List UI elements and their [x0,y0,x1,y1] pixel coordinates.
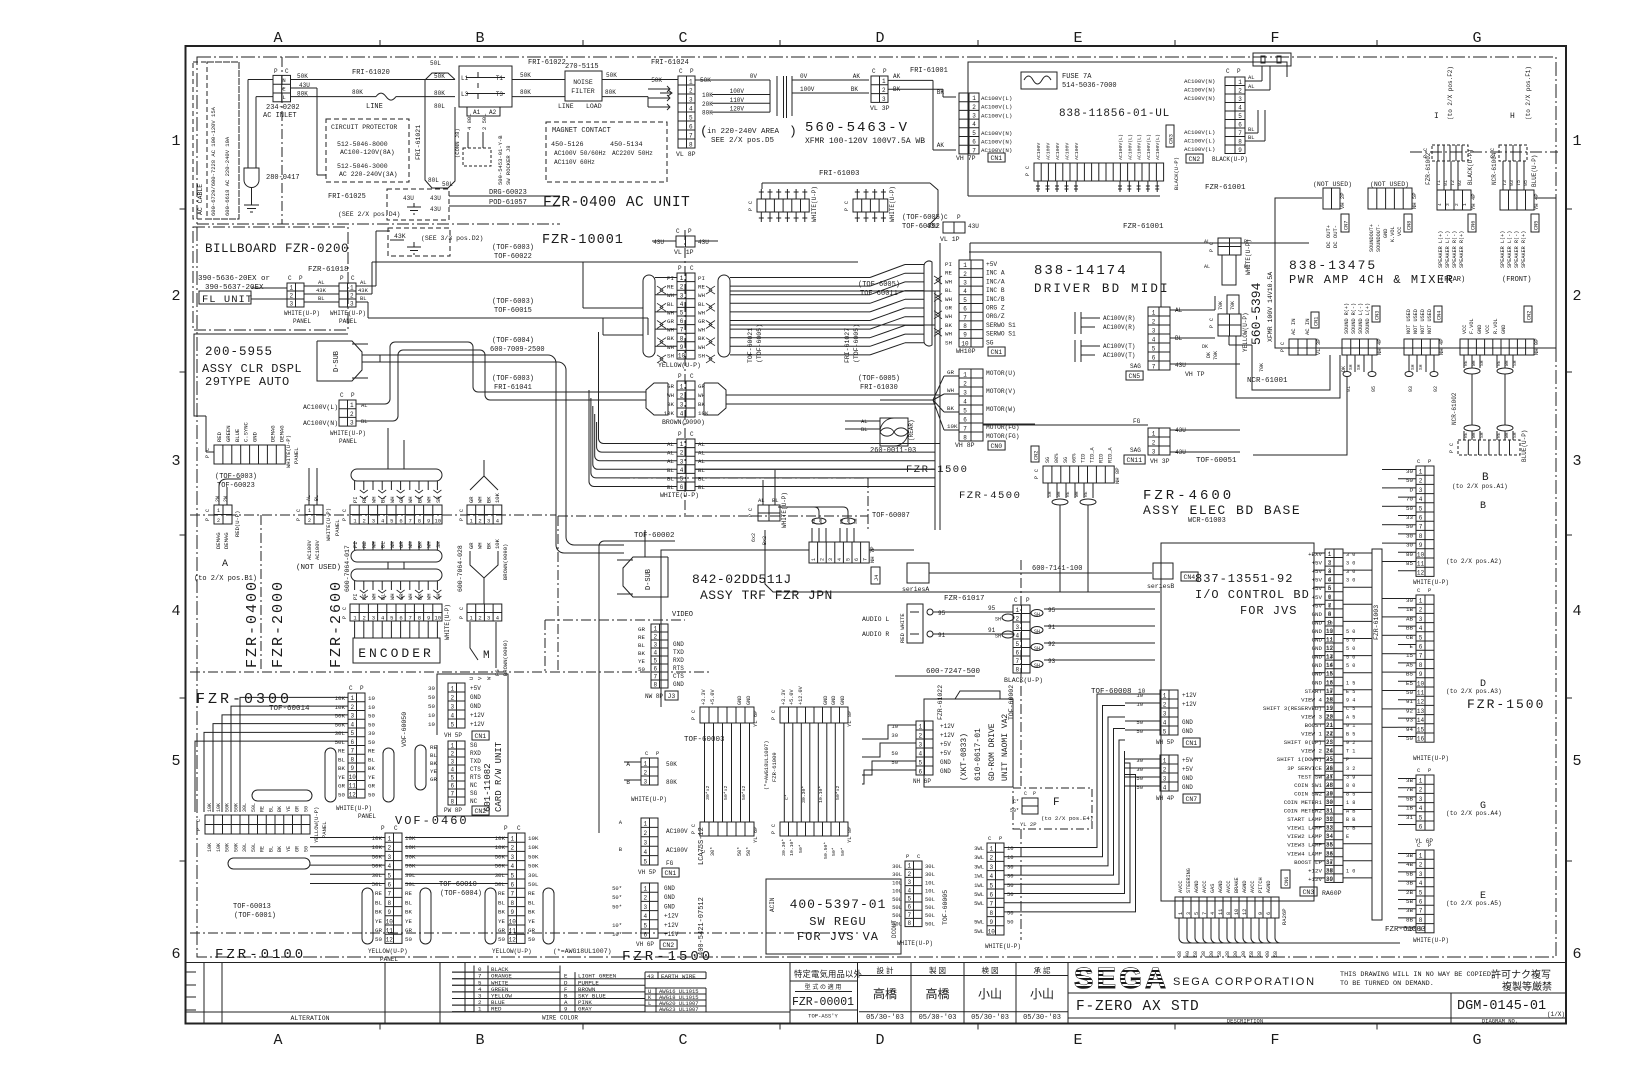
connector CN1 WH 5P right [1160,690,1178,735]
svg-text:MOTOR(FG): MOTOR(FG) [986,433,1019,440]
svg-text:9: 9 [1258,912,1264,915]
svg-text:1: 1 [680,383,684,390]
svg-text:RE: RE [1083,491,1089,497]
svg-text:L: L [282,94,285,101]
svg-text:C*: C* [784,794,790,800]
svg-text:BLUE(U-P): BLUE(U-P) [1531,155,1538,187]
svg-text:(NOT USED): (NOT USED) [1313,181,1352,188]
svg-text:LCA75S-12: LCA75S-12 [698,827,706,865]
svg-text:WH: WH [945,313,952,320]
svg-text:P: P [1449,450,1455,453]
svg-text:38: 38 [1201,951,1207,957]
svg-text:GND: GND [840,696,846,705]
connector stack E [1416,850,1434,933]
wires brown cluster right [726,394,940,396]
svg-text:NH 5P: NH 5P [1411,192,1418,209]
svg-text:80%: 80% [1054,453,1060,463]
svg-text:75: 75 [1516,180,1522,186]
svg-text:INC/B: INC/B [986,296,1005,303]
svg-text:BROWN(9090): BROWN(9090) [502,544,509,580]
connector FZR-61002 YH 4P [1437,190,1471,210]
svg-text:VOF-60050: VOF-60050 [401,712,408,747]
svg-text:7: 7 [450,791,454,798]
svg-text:GND: GND [664,903,675,910]
svg-text:50L: 50L [925,896,935,903]
alteration caption line [186,1011,791,1013]
svg-text:3: 3 [1419,796,1423,803]
connector 43U VL 1P billboard [676,236,695,247]
svg-text:P: P [504,825,508,832]
svg-text:AC100V(L): AC100V(L) [1184,138,1215,145]
svg-text:FZR-4500: FZR-4500 [959,490,1021,502]
svg-text:2: 2 [643,830,647,837]
svg-text:AUDIO L: AUDIO L [862,616,889,623]
svg-text:+5.0V: +5.0V [789,689,795,705]
svg-text:BL: BL [375,899,382,906]
svg-text:DEMAG: DEMAG [223,532,230,549]
svg-text:2: 2 [680,392,684,399]
svg-text:CN6: CN6 [1471,221,1477,230]
svg-text:C: C [205,509,211,512]
svg-text:5WL: 5WL [974,928,984,935]
svg-text:FZR-10001: FZR-10001 [542,233,624,248]
grid row ticks right [1566,208,1572,210]
svg-text:50: 50 [338,791,345,798]
dash-dot boundary A vertical [260,515,262,672]
svg-text:FG: FG [1133,418,1141,425]
svg-text:GND: GND [1312,654,1323,661]
svg-text:YL 8P: YL 8P [846,826,853,843]
wire 80K LINE [291,96,377,98]
svg-text:601-11082: 601-11082 [483,763,493,812]
svg-text:50K: 50K [405,853,416,860]
svg-text:SOUNDOUT+: SOUNDOUT+ [1369,224,1375,252]
svg-text:3: 3 [680,292,684,299]
svg-text:PWR AMP 4CH & MIXER: PWR AMP 4CH & MIXER [1289,273,1454,287]
svg-text:I: I [1434,112,1439,121]
svg-text:(TOF-6003): (TOF-6003) [215,473,257,481]
svg-text:+12V: +12V [1308,867,1322,874]
svg-text:TOF-60015: TOF-60015 [494,307,532,315]
svg-text:START: START [1305,688,1323,695]
svg-text:F: F [1053,797,1060,809]
svg-text:1: 1 [1152,309,1156,316]
svg-text:+5V: +5V [1182,766,1193,773]
svg-text:A: A [273,1032,282,1049]
svg-text:+3.3V: +3.3V [781,689,787,705]
svg-text:5 0: 5 0 [1346,629,1355,635]
svg-text:SG: SG [1045,457,1051,463]
svg-text:60: 60 [1326,877,1332,883]
svg-text:SH: SH [1479,360,1485,366]
svg-text:TID: TID [1081,454,1087,463]
svg-text:50*: 50* [612,894,622,901]
svg-text:SH: SH [698,352,705,359]
svg-text:WH: WH [407,496,414,503]
svg-text:INC A: INC A [986,270,1005,277]
cable bundle right TOF-60021 [718,275,730,357]
svg-text:92: 92 [1457,180,1463,186]
svg-text:AL: AL [360,279,367,286]
svg-text:ORG Z: ORG Z [986,305,1005,312]
svg-text:5: 5 [643,922,647,929]
svg-text:VL 1P: VL 1P [674,249,694,256]
terminal row stubs [1037,181,1039,192]
svg-text:CIRCUIT PROTECTOR: CIRCUIT PROTECTOR [331,124,397,131]
connector NOT USED NH 5P [1368,188,1412,209]
svg-text:5 0: 5 0 [1346,663,1355,669]
svg-text:WH10P: WH10P [956,348,976,355]
wire color table [464,963,466,1013]
connector stack D [1416,595,1434,742]
svg-text:AC110V 60Hz: AC110V 60Hz [554,159,595,166]
svg-text:7: 7 [1419,908,1423,915]
svg-text:C: C [1024,791,1027,797]
svg-text:30: 30 [1209,951,1215,957]
svg-text:P: P [351,392,355,399]
svg-text:2: 2 [820,558,826,561]
svg-text:+5V: +5V [940,750,951,757]
svg-text:YL 6P: YL 6P [752,826,759,843]
svg-text:3: 3 [171,453,180,470]
D-SUB video connector [623,557,668,597]
svg-text:(TOF-6003): (TOF-6003) [492,375,534,383]
svg-text:4: 4 [1328,569,1331,575]
svg-text:GRAY: GRAY [578,1006,592,1013]
svg-text:30L: 30L [242,803,248,812]
svg-text:7: 7 [1238,130,1242,137]
svg-text:3: 3 [372,615,375,622]
connector VL 3P FRI-61001 [871,76,888,102]
svg-text:4: 4 [989,873,993,880]
svg-text:10*: 10* [612,931,622,938]
svg-text:3: 3 [350,713,354,720]
svg-text:3: 3 [680,458,684,465]
svg-text:SH: SH [1034,612,1040,618]
svg-text:C: C [351,275,355,282]
svg-text:1: 1 [1419,598,1423,605]
connector TOF-60014 12P [348,693,365,798]
svg-text:AL: AL [698,441,705,448]
svg-text:WH: WH [667,292,674,299]
svg-text:50K: 50K [335,713,346,720]
svg-text:LINE: LINE [558,103,574,110]
svg-text:FZR-1500: FZR-1500 [1467,697,1545,712]
svg-text:SPEAKER R(+): SPEAKER R(+) [1459,231,1465,268]
svg-text:(TOF-6001): (TOF-6001) [234,912,276,920]
svg-text:6: 6 [689,123,693,130]
svg-text:D: D [875,1032,884,1049]
svg-text:DRIVER BD MIDI: DRIVER BD MIDI [1034,282,1170,296]
svg-text:F: F [1270,1032,1279,1049]
svg-text:3: 3 [487,518,490,525]
svg-text:B 5: B 5 [1346,732,1355,738]
svg-text:GND: GND [1182,728,1193,735]
svg-text:ASSY CLR DSPL: ASSY CLR DSPL [202,362,302,376]
connector WHITE A-B 3P [641,758,658,785]
svg-text:55: 55 [1326,817,1332,823]
svg-text:FG: FG [666,860,674,867]
svg-text:4: 4 [643,849,647,856]
wires A-B to LCA [624,761,641,763]
svg-text:8: 8 [418,518,421,525]
svg-text:1: 1 [643,886,647,893]
svg-text:5: 5 [963,297,967,304]
svg-text:50K: 50K [225,803,231,812]
svg-text:2: 2 [1163,701,1167,708]
svg-text:VIEW1 LAMP: VIEW1 LAMP [1287,825,1322,832]
connector FZR-61018 C-P [287,283,304,307]
svg-text:2: 2 [653,634,657,641]
svg-text:8: 8 [1015,666,1019,673]
svg-text:13: 13 [1417,708,1425,715]
svg-text:1: 1 [450,685,454,692]
svg-text:NC: NC [470,782,478,789]
svg-text:21: 21 [1326,706,1332,712]
svg-text:5: 5 [390,518,393,525]
svg-text:43U: 43U [403,195,414,202]
svg-text:GND: GND [823,696,829,705]
svg-text:7: 7 [972,147,976,154]
svg-text:C: C [678,1032,687,1049]
dash-dot boundary y620 [545,619,685,621]
svg-text:FRI-61041: FRI-61041 [494,384,532,392]
svg-text:BL: BL [498,899,505,906]
svg-text:50: 50 [1326,800,1332,806]
svg-text:1: 1 [289,285,293,292]
svg-text:WH: WH [389,496,396,503]
svg-text:BROWN(9090): BROWN(9090) [502,640,509,676]
svg-text:+5V: +5V [470,685,481,692]
svg-text:49: 49 [1326,791,1332,797]
svg-text:7: 7 [1152,363,1156,370]
svg-text:AC100V(L): AC100V(L) [1118,134,1124,160]
svg-text:1: 1 [963,262,967,269]
svg-text:P: P [771,831,777,834]
svg-text:SPEAKER R(-): SPEAKER R(-) [1452,231,1458,268]
svg-text:P: P [299,275,303,282]
svg-text:A1: A1 [473,109,481,116]
svg-text:4: 4 [680,301,684,308]
svg-text:2: 2 [963,271,967,278]
svg-text:PANEL: PANEL [358,813,376,820]
svg-text:F-ZERO AX STD: F-ZERO AX STD [1076,999,1200,1015]
svg-text:1: 1 [1419,469,1423,476]
svg-text:5: 5 [1419,634,1423,641]
dash-dot boundary y515 [190,514,556,516]
svg-text:GND: GND [746,696,752,705]
svg-text:P: P [957,214,961,221]
svg-text:50: 50 [1007,919,1014,926]
svg-text:SH: SH [1348,364,1354,370]
svg-text:3: 3 [289,301,293,308]
svg-text:WH: WH [667,344,674,351]
svg-text:10K: 10K [698,410,709,417]
svg-text:AC IN: AC IN [1304,318,1311,335]
svg-text:38: 38 [1177,951,1183,957]
ENCODER box [353,638,440,663]
svg-text:TXD: TXD [673,649,684,656]
svg-text:10*: 10* [612,922,622,929]
svg-text:SHIFT 3(RESERVED): SHIFT 3(RESERVED) [1263,705,1322,712]
svg-text:10: 10 [428,712,435,719]
svg-text:AC100V 50/60Hz: AC100V 50/60Hz [554,150,606,157]
svg-text:T 1: T 1 [1346,749,1355,755]
svg-text:110V: 110V [730,97,745,104]
svg-text:C: C [459,607,465,610]
wires brown to M [470,622,478,660]
billboard box FZR-0200 [193,227,348,330]
svg-text:WHITE(U-P): WHITE(U-P) [330,430,366,437]
svg-text:1: 1 [1178,912,1184,915]
svg-text:3: 3 [1419,616,1423,623]
svg-text:WCR-61003: WCR-61003 [1188,517,1226,525]
svg-text:AGND: AGND [1218,881,1224,893]
svg-text:3 2: 3 2 [1346,766,1355,772]
wires NH9P shields [1463,355,1465,368]
svg-text:C: C [196,819,202,822]
svg-text:2: 2 [363,518,366,525]
svg-text:56: 56 [1326,843,1332,849]
svg-text:ASSY TRF FZR JPN: ASSY TRF FZR JPN [700,588,833,603]
svg-text:C: C [690,265,694,272]
svg-text:30.30*: 30.30* [781,839,787,856]
hex bundle left brown [646,383,668,415]
svg-text:3: 3 [1152,327,1156,334]
svg-text:WH: WH [1074,491,1080,497]
svg-text:43U: 43U [430,206,441,213]
svg-text:C: C [394,825,398,832]
block GD-ROM [924,699,1013,787]
svg-text:WH: WH [477,542,484,549]
svg-text:29TYPE AUTO: 29TYPE AUTO [205,375,290,389]
svg-text:30L: 30L [372,872,383,879]
svg-text:3: 3 [680,401,684,408]
svg-text:50L: 50L [251,803,257,812]
svg-text:BL: BL [698,475,705,482]
svg-text:2: 2 [680,284,684,291]
transformer secondary [791,76,793,116]
svg-text:3WL: 3WL [974,863,984,870]
svg-text:5: 5 [450,775,454,782]
svg-text:AVCC: AVCC [1178,881,1184,893]
svg-text:1: 1 [1419,778,1423,785]
svg-text:AC100V(N): AC100V(N) [981,130,1012,137]
svg-text:BK: BK [338,765,345,772]
svg-text:DC OUT-: DC OUT- [1332,225,1339,248]
svg-text:P: P [459,518,465,521]
plug 280-0417 [244,168,259,188]
FL UNIT box [199,291,251,304]
svg-text:72: 72 [1450,180,1456,186]
svg-text:8: 8 [1328,603,1331,609]
svg-text:P: P [1034,476,1040,479]
svg-text:C*: C* [1013,799,1019,805]
hex bundle top 600-7064-028 [470,476,498,490]
svg-text:AC100V: AC100V [1046,143,1052,160]
svg-text:6: 6 [643,932,647,939]
svg-text:8 0: 8 0 [1346,783,1355,789]
svg-text:600-6618 AC 220-240V 10A: 600-6618 AC 220-240V 10A [224,136,231,216]
svg-text:AC CABLE: AC CABLE [197,184,204,215]
wires cluster1 to driver WH10P [730,277,870,279]
svg-text:25: 25 [1326,740,1332,746]
svg-text:6: 6 [450,783,454,790]
svg-text:GREEN: GREEN [225,425,232,442]
svg-text:610-0617-01: 610-0617-01 [974,728,983,781]
svg-text:P: P [883,68,887,75]
svg-text:B: B [1480,501,1486,512]
svg-text:30L: 30L [335,730,346,737]
svg-text:RE: RE [498,890,505,897]
svg-text:AC100V(L): AC100V(L) [981,112,1012,119]
wires between yellow clusters [405,837,508,839]
svg-text:6: 6 [1266,912,1272,915]
svg-text:23: 23 [1326,723,1332,729]
svg-text:1: 1 [350,402,354,409]
wires AC100V 2P up [308,468,310,505]
svg-text:50: 50 [368,713,375,720]
svg-text:3: 3 [372,518,375,525]
svg-text:GND: GND [664,885,675,892]
svg-text:6: 6 [680,484,684,491]
svg-text:50L: 50L [495,881,506,888]
wire TOF-60015 bus [368,317,648,319]
svg-text:AVCC: AVCC [1226,881,1232,893]
svg-text:P: P [1428,458,1431,465]
wires CN1 left staircase [1125,693,1160,695]
svg-text:BL: BL [405,899,412,906]
svg-text:16: 16 [1326,672,1332,678]
svg-text:4: 4 [350,721,354,728]
svg-text:12: 12 [1242,909,1248,915]
svg-text:WHITE(U-P): WHITE(U-P) [444,604,451,640]
svg-text:AC100V(L): AC100V(L) [1137,134,1143,160]
svg-text:9: 9 [1419,542,1423,549]
svg-text:10K: 10K [216,803,222,812]
svg-text:1 0: 1 0 [1346,868,1355,874]
svg-text:SG: SG [1063,457,1069,463]
svg-text:C: C [342,509,348,512]
svg-text:7: 7 [863,558,869,561]
svg-text:INC/A: INC/A [986,278,1005,285]
svg-text:509-5453-91-Y-B: 509-5453-91-Y-B [497,135,504,185]
svg-text:SH: SH [995,617,1001,623]
svg-text:7: 7 [409,518,412,525]
svg-text:7: 7 [387,891,391,898]
svg-text:30: 30 [368,730,375,737]
svg-text:50K: 50K [528,853,539,860]
svg-text:512-5046-3000: 512-5046-3000 [337,163,388,170]
svg-text:FZR-0100: FZR-0100 [215,947,306,963]
svg-text:50K: 50K [297,73,308,80]
svg-text:YE: YE [338,774,345,781]
svg-text:M: M [483,650,490,662]
svg-text:AGND: AGND [1194,881,1200,893]
svg-text:3: 3 [1419,487,1423,494]
svg-text:7: 7 [963,314,967,321]
svg-text:1: 1 [171,133,180,150]
svg-text:BL: BL [698,467,705,474]
svg-text:C: C [1226,68,1230,75]
svg-text:(TOF-6005): (TOF-6005) [853,324,860,363]
svg-text:NC: NC [470,798,478,805]
svg-text:3: 3 [1238,96,1242,103]
svg-text:J3: J3 [668,693,676,700]
svg-text:280-0417: 280-0417 [266,174,300,182]
svg-text:50K: 50K [233,803,239,812]
svg-text:11: 11 [349,783,357,790]
